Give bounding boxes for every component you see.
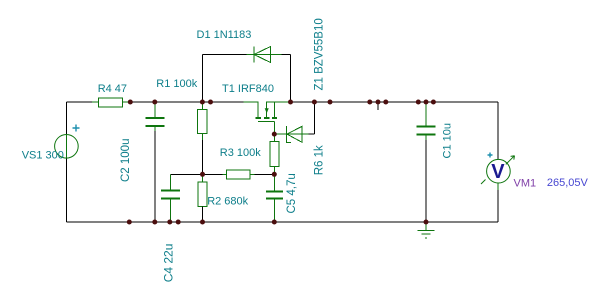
wire C1 lower lead <box>425 140 427 222</box>
wire D1 branch left vertical <box>201 55 203 103</box>
wire left vertical lower <box>65 158 67 222</box>
junction D1 left / R1 top <box>200 100 205 105</box>
wire R2 lower lead <box>202 207 204 223</box>
junction mid rail R1/R2 <box>200 172 205 177</box>
wire Z1 anode vertical <box>314 102 316 134</box>
svg-text:Z1 BZV55B10: Z1 BZV55B10 <box>314 18 326 90</box>
capacitor C4 <box>161 175 180 223</box>
junction top rail x418 <box>416 100 421 105</box>
capacitor C2 <box>146 102 165 131</box>
wire top rail left segment <box>66 101 258 103</box>
resistor R6 <box>270 134 279 174</box>
voltmeter VM1 <box>481 153 515 191</box>
junction C4 bottom <box>167 220 172 225</box>
svg-text:C4 22u: C4 22u <box>162 244 176 283</box>
junction C1 top <box>424 100 429 105</box>
ground <box>417 222 434 238</box>
svg-text:VM1: VM1 <box>514 177 537 189</box>
junction bottom rail x178 <box>176 220 181 225</box>
junction top rail x330 <box>328 100 333 105</box>
wire right vertical lower <box>497 183 499 222</box>
svg-text:R6 1k: R6 1k <box>314 145 326 175</box>
wire mid rail left <box>170 174 222 176</box>
svg-text:D1 1N1183: D1 1N1183 <box>197 29 252 41</box>
wire left vertical upper <box>65 102 67 135</box>
wire C2 lower lead <box>154 131 156 222</box>
wire D1 branch top right <box>282 54 291 56</box>
svg-text:R3 100k: R3 100k <box>220 147 261 159</box>
wire mid rail right <box>254 174 274 176</box>
junction R2 bottom <box>200 220 205 225</box>
zener diode Z1 <box>274 126 308 142</box>
junction D1 right <box>288 100 293 105</box>
svg-text:C2 100u: C2 100u <box>120 139 132 182</box>
svg-text:V: V <box>491 161 505 183</box>
junction mid rail R6/C5 <box>272 172 277 177</box>
svg-text:R4 47: R4 47 <box>98 83 127 95</box>
wire top rail right segment <box>266 101 498 103</box>
resistor R2 <box>198 175 207 207</box>
junction bottom rail x129 <box>127 220 132 225</box>
wire bottom rail <box>66 221 498 223</box>
svg-text:265,05V: 265,05V <box>547 177 589 189</box>
junction C1 bottom / ground <box>424 220 429 225</box>
junction Z1 top <box>312 100 317 105</box>
junction C2 bottom <box>152 220 157 225</box>
capacitor C1 <box>417 102 436 140</box>
junction dots <box>127 100 436 225</box>
wire stub top rail <box>377 102 379 110</box>
wire R1 lower lead <box>201 140 203 175</box>
svg-text:C1 10u: C1 10u <box>442 123 454 158</box>
capacitor C5 <box>266 175 283 223</box>
svg-text:VS1 300: VS1 300 <box>22 150 64 162</box>
svg-text:C5 4,7u: C5 4,7u <box>286 173 298 213</box>
svg-text:T1 IRF840: T1 IRF840 <box>222 83 274 95</box>
junction top rail x433 <box>431 100 436 105</box>
junction C5 bottom <box>272 220 277 225</box>
svg-text:R1 100k: R1 100k <box>156 78 197 90</box>
junction stub x378 <box>376 100 381 105</box>
junction R4 right <box>128 100 133 105</box>
junction top rail x386 <box>383 100 388 105</box>
resistor R1 <box>198 102 208 140</box>
wire D1 branch right vertical <box>290 55 292 103</box>
resistor R3 <box>223 170 255 179</box>
wire Z1 anode horizontal <box>309 133 315 135</box>
voltage source VS1 <box>55 125 80 159</box>
junction top rail x210 <box>208 100 213 105</box>
transistor T1 MOSFET <box>244 102 291 134</box>
svg-text:R2 680k: R2 680k <box>207 196 248 208</box>
junction C2 top <box>152 100 157 105</box>
junction gate node <box>272 132 277 137</box>
resistor R4 <box>92 98 130 107</box>
wire right vertical upper <box>497 102 499 160</box>
junction top rail x370 <box>367 100 372 105</box>
diode D1 <box>247 47 282 63</box>
wire D1 branch top left <box>202 54 246 56</box>
